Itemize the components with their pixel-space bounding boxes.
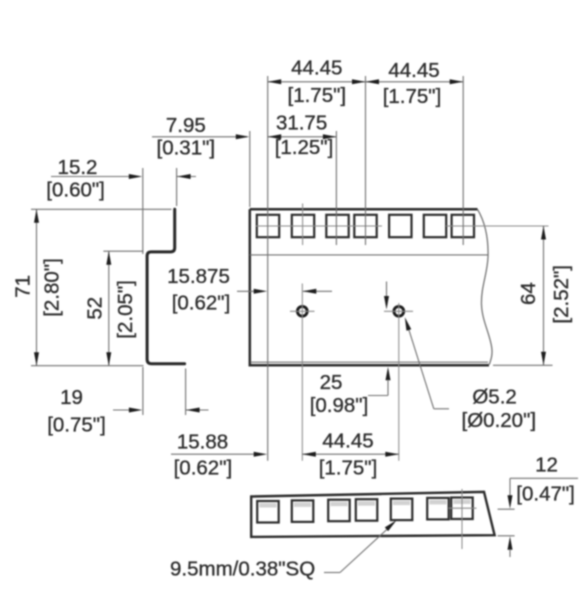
dim line 52 vertical (108, 251, 110, 366)
round hole 1 center line horizontal (290, 310, 315, 312)
svg-text:52: 52 (84, 297, 107, 320)
svg-text:15.2: 15.2 (58, 156, 98, 179)
dim 31.75: extension line col3 (335, 131, 337, 245)
square hole 1 (257, 215, 279, 237)
front view plate top edge (250, 208, 478, 211)
svg-text:[0.75"]: [0.75"] (47, 414, 106, 437)
svg-text:[0.98"]: [0.98"] (310, 394, 369, 417)
extension line col4 (365, 76, 367, 245)
svg-text:71: 71 (12, 275, 35, 298)
square hole 4 (354, 215, 376, 237)
svg-text:31.75: 31.75 (276, 112, 327, 135)
dim 15.875 mid with outside arrows (237, 290, 254, 292)
dim 12 leader to text (510, 477, 578, 479)
dim line 31.75 (268, 136, 337, 138)
square hole 3 (326, 215, 348, 237)
svg-text:[2.80"]: [2.80"] (41, 258, 64, 317)
dim 71: bottom extension line (31, 365, 144, 367)
round hole 1 (297, 306, 307, 316)
dim line 71 vertical (36, 209, 38, 365)
front view fold line under square holes (250, 254, 488, 256)
dim 64 vertical line (543, 226, 545, 365)
svg-text:[2.05"]: [2.05"] (114, 280, 137, 339)
dim line 44.45 top second (366, 81, 464, 83)
dim 64 bottom extension line (493, 364, 553, 366)
dim 12: arrows outside (509, 488, 511, 496)
strip square hole 2 (292, 500, 314, 522)
label 9.5mm square leader (324, 572, 340, 574)
front view plate bottom edge (250, 364, 489, 367)
square hole 6 (424, 215, 446, 237)
round hole 2 (394, 306, 404, 316)
dim 44.45 bottom (302, 453, 399, 455)
center line horizontal through square hole 7 and 64-dim extension (446, 225, 549, 227)
round hole 1 center line vertical (301, 284, 303, 461)
dim Ø5.2 leader with arrow (406, 321, 434, 409)
front view break line (wavy right edge) (478, 209, 493, 364)
extension line col7 (462, 76, 464, 245)
dim 52: top extension line at jog (103, 250, 143, 252)
svg-text:[0.62"]: [0.62"] (174, 457, 233, 480)
svg-text:44.45: 44.45 (291, 57, 342, 80)
dim 44.45 top first: extension line col1 (267, 76, 269, 461)
front view bottom fold line (251, 361, 489, 363)
dim line 19 with outside arrows (113, 409, 130, 411)
svg-text:[Ø0.20"]: [Ø0.20"] (462, 409, 537, 432)
svg-text:15.875: 15.875 (167, 265, 230, 288)
dim 25: lower arrow with leader (386, 367, 391, 381)
square hole 5 (389, 215, 411, 237)
svg-text:[1.75"]: [1.75"] (383, 85, 442, 108)
svg-text:64: 64 (517, 282, 540, 305)
strip square hole 1 (257, 501, 279, 523)
svg-text:7.95: 7.95 (166, 114, 206, 137)
svg-text:[0.60"]: [0.60"] (46, 179, 105, 202)
round hole 2 center line vertical (398, 303, 400, 461)
square hole 2 (292, 215, 314, 237)
extension line top vertical right face (176, 168, 178, 206)
bottom strip view (251, 489, 494, 549)
strip square hole 3 (328, 500, 350, 522)
svg-text:44.45: 44.45 (388, 59, 439, 82)
svg-text:15.88: 15.88 (177, 431, 228, 454)
strip square hole 5 (391, 499, 413, 520)
dim 7.95: extension line plate left edge (249, 131, 251, 207)
dim 19: extension lines under flange (142, 367, 144, 415)
svg-text:[1.25"]: [1.25"] (275, 136, 334, 159)
svg-text:Ø5.2: Ø5.2 (472, 386, 516, 409)
dim 25 vertical: upper arrow (386, 282, 388, 297)
svg-text:[0.62"]: [0.62"] (172, 292, 231, 315)
svg-text:25: 25 (320, 371, 343, 394)
svg-text:19: 19 (60, 386, 83, 409)
dim 71: top extension line (31, 208, 172, 210)
svg-text:[2.52"]: [2.52"] (550, 265, 573, 324)
svg-text:[1.75"]: [1.75"] (288, 84, 347, 107)
dim 12: extension lines (498, 508, 515, 510)
square hole 7 (452, 215, 474, 237)
front view of rail (main plate) (250, 209, 549, 366)
center line horizontal through square holes 1-4 (256, 225, 383, 227)
strip square hole 7 (451, 498, 473, 520)
dim line 7.95 with outside arrow (152, 136, 247, 138)
svg-text:[1.75"]: [1.75"] (319, 457, 378, 480)
dim 15.88 bottom with outside arrows (171, 453, 254, 455)
round hole 2 center line horizontal (384, 310, 413, 312)
dim 15.2: extension line left face (142, 168, 144, 254)
side view profile (147, 209, 185, 363)
strip square hole 7 center lines (461, 489, 463, 549)
strip outline with slanted break end (251, 492, 494, 537)
front view plate left edge (249, 209, 252, 366)
strip square hole 4 (356, 499, 378, 521)
svg-text:[0.31"]: [0.31"] (157, 137, 216, 160)
svg-text:[0.47"]: [0.47"] (516, 483, 575, 506)
square hole 2 center line vertical (302, 204, 304, 246)
svg-text:9.5mm/0.38"SQ: 9.5mm/0.38"SQ (170, 558, 315, 581)
dim line 44.45 top first (268, 81, 366, 83)
svg-text:12: 12 (535, 454, 558, 477)
strip square hole 6 (427, 498, 449, 520)
svg-text:44.45: 44.45 (322, 430, 373, 453)
dim line 15.2 with outside arrows (51, 176, 130, 178)
